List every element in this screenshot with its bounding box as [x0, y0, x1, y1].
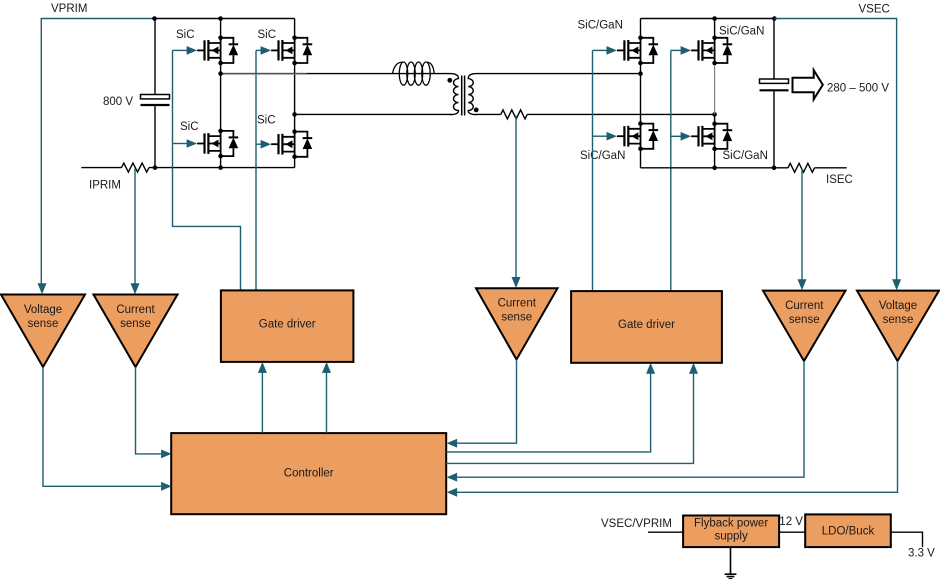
wire primary upper mid rail to inductor	[221, 73, 450, 75]
capacitor C2 output leads	[773, 19, 775, 168]
wire grey overlay segment upper mid rail	[222, 73, 307, 75]
node T1 secondary polarity dot	[474, 108, 479, 113]
svg-text:SiC/GaN: SiC/GaN	[723, 150, 768, 162]
op-amp current sense 1 triangle	[94, 295, 178, 368]
svg-text:Voltage: Voltage	[24, 304, 62, 316]
wire current sense 3 output to controller	[457, 361, 804, 477]
LDO/Buck box	[805, 514, 891, 547]
controller U3 box	[171, 433, 446, 514]
node junction left-leg/bottom rail	[218, 165, 223, 170]
wire primary top rail	[155, 18, 295, 20]
capacitor C2 plates	[760, 79, 789, 83]
svg-text:Gate driver: Gate driver	[259, 319, 316, 331]
wire gate lead Q2	[256, 49, 261, 51]
svg-text:SiC/GaN: SiC/GaN	[580, 150, 625, 162]
node junction secondary right-leg/bottom rail	[712, 166, 717, 171]
op-amp current sense 2 triangle	[476, 288, 558, 359]
transformer T1 secondary winding	[468, 74, 476, 115]
svg-text:Current: Current	[785, 300, 824, 312]
transformer T1 core	[462, 76, 465, 116]
op-amp current sense 3 triangle	[763, 291, 846, 361]
transformer T1 primary winding	[450, 74, 459, 115]
svg-text:SiC: SiC	[180, 121, 199, 133]
svg-text:SiC/GaN: SiC/GaN	[719, 26, 764, 38]
wire LDO output 3.3V	[891, 532, 923, 547]
svg-text:LDO/Buck: LDO/Buck	[822, 525, 875, 537]
svg-text:800 V: 800 V	[103, 96, 133, 108]
wire primary bottom rail right part	[149, 167, 295, 169]
wire secondary bottom rail right part	[815, 167, 847, 169]
gate driver U2 box	[571, 291, 722, 363]
node junction secondary right-leg/top rail	[712, 16, 717, 21]
wire gate lead Q6	[671, 49, 681, 51]
svg-text:SiC: SiC	[258, 29, 277, 41]
wire gate bus 4 (teal) secondary right-leg gates to gate driver 2	[670, 50, 672, 291]
svg-text:sense: sense	[28, 318, 59, 330]
svg-text:Voltage: Voltage	[879, 300, 917, 312]
svg-text:Current: Current	[116, 304, 155, 316]
transistor Q3 (primary low-side left)	[187, 129, 239, 159]
wire secondary bottom rail left part	[641, 167, 789, 169]
resistor ISEC shunt	[788, 163, 815, 172]
node junction cap1/top rail	[152, 16, 157, 21]
wire secondary top rail	[641, 18, 775, 20]
inductor L1 series	[393, 62, 435, 85]
wire secondary left leg segments	[640, 19, 642, 168]
node junction left-leg midpoint	[218, 71, 223, 76]
transistor Q5 (secondary high-side left)	[607, 36, 659, 66]
svg-text:280 – 500 V: 280 – 500 V	[827, 82, 889, 94]
wire VPRIM sense (teal) top-left corner down to voltage sense 1	[41, 19, 154, 284]
wire gate bus 2 (teal) right-leg gates to gate driver 1	[255, 50, 257, 290]
svg-text:VSEC/VPRIM: VSEC/VPRIM	[601, 518, 672, 530]
node junction right-leg midpoint	[292, 112, 297, 117]
svg-text:Flyback power: Flyback power	[694, 517, 768, 529]
wire voltage sense 2 output to controller	[457, 361, 898, 492]
wire controller to gate driver 1 left	[261, 372, 263, 433]
node junction cap2/bottom rail	[772, 166, 777, 171]
svg-text:sense: sense	[883, 314, 914, 326]
resistor IPRIM shunt	[122, 163, 149, 172]
svg-text:Current: Current	[498, 298, 537, 310]
wire controller to gate driver 2 right	[446, 373, 693, 463]
svg-text:ISEC: ISEC	[826, 174, 853, 186]
svg-text:sense: sense	[120, 318, 151, 330]
op-amp voltage sense 2 triangle	[857, 291, 939, 361]
wire gate lead Q8	[671, 135, 681, 137]
wire gate lead Q1	[173, 49, 188, 51]
wire secondary lower mid rail right part	[527, 113, 714, 115]
node junction secondary left-leg midpoint	[638, 71, 643, 76]
wire gate lead Q5	[593, 49, 608, 51]
node junction cap1/bottom rail	[153, 165, 158, 170]
node T1 primary polarity dot	[447, 78, 452, 83]
capacitor C1 800 V leads	[154, 19, 156, 168]
wire secondary right leg segments	[714, 19, 716, 168]
wire VSEC sense (teal) to voltage sense 2	[774, 19, 896, 281]
wire secondary upper mid rail	[477, 73, 641, 75]
transistor Q7 (secondary low-side left)	[607, 121, 659, 151]
wire flyback input	[648, 531, 683, 533]
wire gate bus 1 (teal) left-leg gates to gate driver 1	[173, 50, 241, 290]
wire current sense 1 output to controller	[136, 367, 162, 454]
wire primary right leg segments	[294, 19, 296, 168]
svg-text:3.3 V: 3.3 V	[908, 548, 935, 560]
svg-text:Gate driver: Gate driver	[618, 319, 675, 331]
wire primary bottom rail left part	[81, 167, 121, 169]
wire secondary lower mid rail left part	[477, 113, 501, 115]
svg-text:Controller: Controller	[284, 468, 334, 480]
wire gate lead Q3	[173, 143, 188, 145]
transistor Q4 (primary low-side right)	[261, 129, 313, 159]
node junction secondary right-leg midpoint	[712, 112, 717, 117]
node junction cap2/top rail	[772, 16, 777, 21]
wire controller to gate driver 1 right	[326, 372, 328, 433]
transistor Q2 (primary high-side right)	[261, 36, 313, 66]
wire IPRIM sense tap (teal) down to current sense 1	[134, 169, 136, 284]
svg-text:SiC: SiC	[176, 29, 195, 41]
svg-text:supply: supply	[714, 530, 747, 542]
wire ISEC sense tap (teal) to current sense 3	[801, 169, 803, 280]
wire gate bus 3 (teal) secondary left-leg gates to gate driver 2	[592, 50, 594, 291]
svg-text:12 V: 12 V	[779, 516, 803, 528]
flyback power supply box	[683, 516, 779, 548]
ground flyback	[725, 547, 737, 578]
svg-text:VPRIM: VPRIM	[51, 3, 87, 15]
wire flyback to LDO	[779, 531, 805, 533]
wire current sense 2 output to controller	[457, 360, 517, 444]
transistor Q8 (secondary low-side right)	[681, 121, 733, 151]
transistor Q6 (secondary high-side right)	[681, 36, 733, 66]
svg-text:sense: sense	[789, 314, 820, 326]
wire gate lead Q7	[593, 135, 608, 137]
svg-text:sense: sense	[501, 312, 532, 324]
wire controller to gate driver 2 left	[446, 373, 650, 452]
wire primary lower mid rail	[295, 113, 452, 115]
wire grey segment secondary right leg	[714, 63, 716, 114]
transistor Q1 (primary high-side left)	[187, 36, 239, 66]
output block arrow symbol	[793, 70, 823, 99]
capacitor C1 plates	[141, 95, 170, 99]
svg-text:SiC: SiC	[257, 115, 276, 127]
svg-text:IPRIM: IPRIM	[89, 180, 121, 192]
wire voltage sense 1 output to controller	[43, 367, 161, 486]
gate driver U1 box	[221, 290, 354, 362]
svg-text:VSEC: VSEC	[859, 4, 890, 16]
resistor secondary series shunt	[501, 110, 527, 119]
node junction left-leg/top rail	[218, 16, 223, 21]
wire gate lead Q4	[256, 143, 261, 145]
wire primary left leg segments	[220, 19, 222, 168]
svg-text:SiC/GaN: SiC/GaN	[578, 20, 623, 32]
wire current sense 2 tap (teal)	[515, 116, 517, 278]
op-amp voltage sense 1 triangle	[1, 295, 85, 368]
